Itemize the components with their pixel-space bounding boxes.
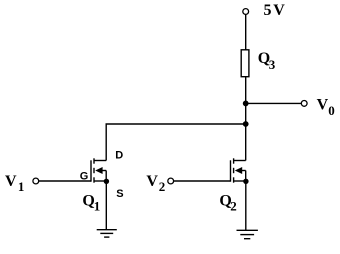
svg-text:3: 3 bbox=[269, 57, 276, 72]
svg-text:V: V bbox=[5, 173, 17, 190]
svg-text:1: 1 bbox=[94, 198, 101, 213]
svg-text:G: G bbox=[80, 170, 89, 182]
svg-text:D: D bbox=[115, 149, 123, 161]
svg-text:1: 1 bbox=[18, 179, 25, 194]
svg-text:2: 2 bbox=[159, 179, 166, 194]
svg-text:2: 2 bbox=[230, 198, 237, 213]
svg-text:V: V bbox=[146, 173, 158, 190]
svg-text:V: V bbox=[317, 97, 329, 114]
svg-text:0: 0 bbox=[328, 103, 335, 118]
svg-text:5: 5 bbox=[264, 2, 272, 19]
svg-text:V: V bbox=[273, 2, 285, 19]
svg-text:S: S bbox=[116, 188, 123, 200]
